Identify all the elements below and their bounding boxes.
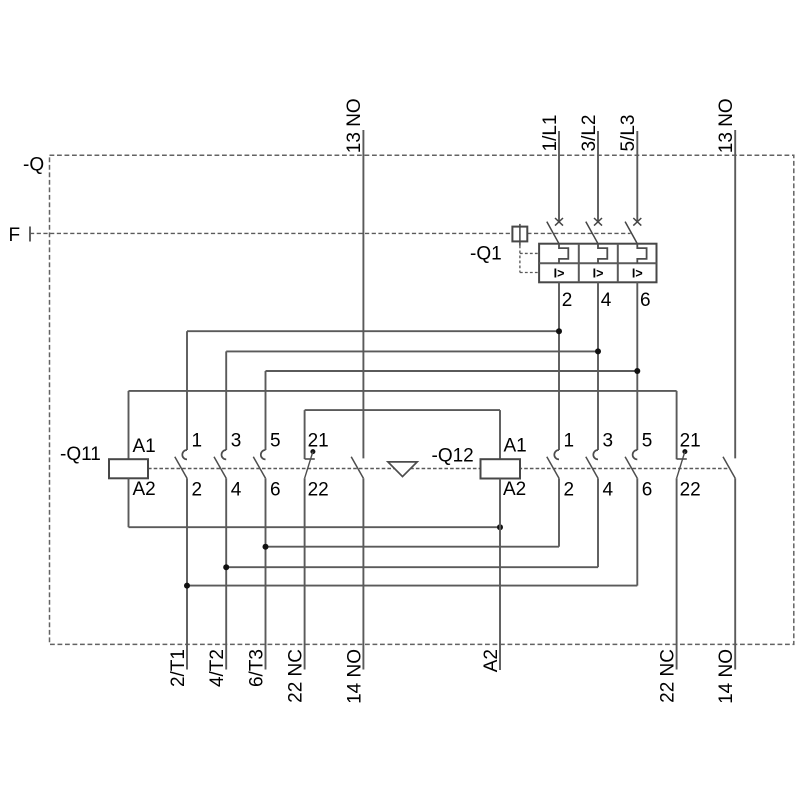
wire feed L3 horizontal [266, 370, 638, 372]
svg-text:2: 2 [192, 480, 203, 501]
svg-text:4/T2: 4/T2 [207, 649, 228, 687]
wire supply 1/L1 vertical [558, 131, 560, 222]
svg-text:6: 6 [640, 290, 651, 311]
mechanical interlock triangle [388, 462, 417, 477]
wire breaker output 2 down to Q12 contact [558, 282, 560, 450]
wire Q12 contact 6 down [636, 478, 638, 585]
svg-text:6: 6 [642, 480, 653, 501]
coil -Q12 body [481, 459, 521, 478]
wire Q12 contact 4 cross to Q11 output [226, 566, 598, 568]
svg-text:-Q11: -Q11 [60, 444, 101, 465]
node junction dot on terminal wire 266 [263, 544, 269, 550]
breaker -Q1 box column dividers [578, 244, 580, 283]
svg-text:1: 1 [192, 431, 203, 452]
wire supply 3/L2 vertical [597, 131, 599, 222]
breaker pole 5 contact X mark [633, 218, 641, 226]
wire Q12 contact 2 cross to Q11 output [266, 546, 560, 548]
contact Q11 pole 1/2 (NO) [182, 450, 187, 459]
wire Q12 contact 4 down [597, 478, 599, 567]
wire feed down to Q11 contact 1 [186, 331, 188, 450]
node F terminal tick [29, 227, 31, 242]
wire Q12-A1 loop right edge [499, 410, 501, 459]
breaker pole 1 contact X mark [555, 218, 563, 226]
breaker -Q1 dashed linkage vertical [519, 246, 521, 273]
node junction dot on terminal wire 226 [223, 564, 229, 570]
wire Q11 A2 down from coil [128, 478, 130, 527]
svg-text:1: 1 [564, 431, 575, 452]
svg-text:F: F [9, 225, 21, 246]
node junction dot at breaker output 2 [556, 328, 562, 334]
wire trip linkage dashed line right of square [527, 232, 630, 234]
svg-text:6/T3: 6/T3 [247, 649, 268, 687]
svg-text:22: 22 [308, 480, 329, 501]
node junction dot at breaker output 6 [634, 368, 640, 374]
contact Q12 pole 5/6 (NO) [633, 450, 638, 459]
svg-text:22 NC: 22 NC [658, 649, 679, 703]
contact Q11 pole 3/4 (NO) [221, 450, 226, 459]
wire Q12 14 down to terminal [734, 478, 736, 669]
contact Q12 13/14 (NO aux) [723, 457, 735, 479]
svg-text:4: 4 [231, 480, 242, 501]
breaker pole 5 operating lever [625, 222, 637, 244]
svg-text:5/L3: 5/L3 [618, 115, 639, 152]
svg-text:I>: I> [593, 267, 604, 281]
breaker pole 1 operating lever [547, 222, 559, 244]
breaker pole 3 contact X mark [594, 218, 602, 226]
svg-text:-Q: -Q [23, 155, 44, 176]
svg-text:4: 4 [603, 480, 614, 501]
wire Q12-A1 to Q11-21 loop (top edge) [305, 409, 500, 411]
svg-text:5: 5 [642, 431, 653, 452]
wire mechanical linkage dashed line (coils to contacts) [148, 468, 730, 470]
contact Q12 pole 1/2 (NO) [554, 450, 559, 459]
wire Q11 14 down to terminal [362, 478, 364, 669]
wire Q11-21 loop left edge [304, 410, 306, 459]
wire Q12 contact 6 cross to Q11 output [187, 585, 637, 587]
svg-text:4: 4 [601, 290, 612, 311]
wire breaker output 6 down to Q12 contact [636, 282, 638, 450]
wire Q12-21 loop right edge [676, 391, 678, 459]
svg-text:14 NO: 14 NO [716, 649, 737, 704]
svg-text:14 NO: 14 NO [344, 649, 365, 704]
svg-text:A2: A2 [133, 479, 156, 500]
breaker -Q1 box outline [539, 244, 656, 283]
node junction dot A2 bus at Q12 A2 [497, 524, 503, 530]
breaker -Q1 dashed linkage to thermal row [520, 252, 539, 254]
breaker pole 2 thermal overload element [598, 244, 607, 264]
contact Q11 21/22 (NC) [305, 458, 315, 460]
dashed enclosure border -Q [50, 155, 794, 644]
wire Q11 contact 2 down to terminal [186, 478, 188, 669]
svg-text:2: 2 [564, 480, 575, 501]
wire 13 NO (Q11 aux) vertical from top [362, 130, 364, 458]
contact Q11 pole 5/6 (NO) [261, 450, 266, 459]
contact Q11 13/14 (NO aux) [351, 457, 363, 479]
svg-text:-Q1: -Q1 [470, 244, 502, 265]
svg-text:I>: I> [554, 267, 565, 281]
wire A2 bus horizontal [129, 526, 501, 528]
wire feed down to Q11 contact 5 [265, 371, 267, 450]
wire Q12 22 down to terminal [676, 478, 678, 669]
wire Q12 contact 2 down [558, 478, 560, 546]
node junction dot at breaker output 4 [595, 348, 601, 354]
svg-text:A2: A2 [503, 479, 526, 500]
wire F trip dashed line [30, 232, 512, 234]
contact Q12 21/22 (NC) [677, 458, 687, 460]
svg-text:A1: A1 [504, 436, 527, 457]
svg-text:A1: A1 [133, 436, 156, 457]
svg-text:22: 22 [680, 480, 701, 501]
svg-text:6: 6 [270, 480, 281, 501]
breaker pole 1 thermal overload element [559, 244, 568, 264]
wire Q11-A1 to Q12-21 loop (top edge) [129, 390, 677, 392]
wire feed L2 horizontal [226, 350, 598, 352]
svg-text:-Q12: -Q12 [432, 446, 474, 467]
breaker -Q1 dashed linkage to magnetic row [520, 272, 539, 274]
node junction dot on terminal wire 187 [184, 583, 190, 589]
svg-text:1/L1: 1/L1 [540, 115, 561, 152]
wire Q12 A2 down from coil to terminal [499, 479, 501, 671]
wire Q11 contact 6 down to terminal [265, 478, 267, 669]
svg-text:2: 2 [562, 290, 573, 311]
wire feed down to Q11 contact 3 [225, 351, 227, 450]
wire Q11 contact 4 down to terminal [225, 478, 227, 669]
wire Q11-A1 loop left edge [128, 391, 130, 459]
breaker pole 3 operating lever [586, 222, 598, 244]
svg-text:21: 21 [308, 431, 329, 452]
wire breaker output 4 down to Q12 contact [597, 282, 599, 450]
svg-text:I>: I> [632, 267, 643, 281]
svg-text:13 NO: 13 NO [716, 98, 737, 153]
svg-text:A2: A2 [481, 649, 502, 672]
svg-text:22 NC: 22 NC [286, 649, 307, 703]
svg-text:5: 5 [270, 431, 281, 452]
wire supply 5/L3 vertical [636, 131, 638, 222]
breaker -Q1 trip linkage square [512, 227, 527, 242]
svg-text:13 NO: 13 NO [344, 98, 365, 153]
coil -Q11 body [109, 459, 148, 478]
wire feed L1 horizontal [187, 330, 559, 332]
contact Q12 pole 3/4 (NO) [593, 450, 598, 459]
wire 13 NO (Q12 aux) vertical from top [734, 130, 736, 458]
svg-text:3/L2: 3/L2 [579, 115, 600, 152]
svg-text:3: 3 [231, 431, 242, 452]
breaker pole 3 thermal overload element [637, 244, 646, 264]
svg-text:2/T1: 2/T1 [168, 649, 189, 687]
breaker -Q1 box row divider [539, 262, 656, 264]
wire Q11 22 down to terminal [304, 478, 306, 669]
svg-text:21: 21 [680, 431, 701, 452]
svg-text:3: 3 [603, 431, 614, 452]
